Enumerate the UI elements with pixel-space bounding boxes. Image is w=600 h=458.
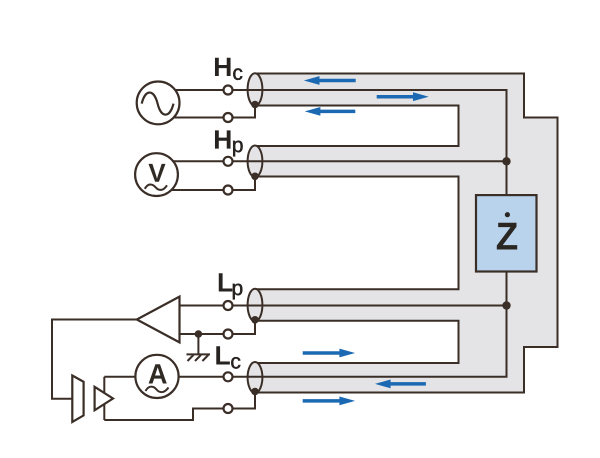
- current arrow below Lc tube (right): [303, 397, 355, 406]
- wire Hc shield connection: [157, 103, 255, 118]
- ammeter A letter: [149, 364, 167, 383]
- ammeter tilde: [146, 387, 169, 392]
- wire Hp shield connection: [158, 174, 255, 190]
- wire feedback vertical link: [103, 377, 105, 420]
- terminal Lp lower: [224, 330, 233, 339]
- terminal Hp lower: [224, 186, 233, 195]
- voltmeter tilde: [145, 184, 167, 189]
- junction DUT high node: [502, 157, 510, 165]
- junction Lc shield dot: [251, 388, 259, 396]
- terminal Hp upper: [224, 157, 233, 166]
- label Hc: [215, 58, 242, 80]
- impedance Z DUT box: [476, 195, 537, 271]
- wire Lc shield return path: [104, 390, 255, 420]
- voltmeter V letter: [149, 164, 166, 182]
- label Lc: [216, 346, 240, 368]
- wire node high to Z top: [506, 161, 508, 196]
- Lc coax connector ellipse: [248, 362, 263, 393]
- wire amplifier output feedback: [52, 320, 138, 399]
- ground symbol: [187, 354, 211, 361]
- junction ground node: [195, 330, 203, 338]
- terminal Lc lower: [224, 404, 233, 413]
- wire Hp inner conductor: [158, 160, 507, 162]
- terminal Hc upper: [224, 86, 233, 95]
- current arrow above Lc tube (right): [303, 349, 355, 358]
- wire ground stem: [197, 334, 199, 354]
- Lp coax connector ellipse: [248, 289, 263, 322]
- junction Hc shield dot: [251, 101, 259, 109]
- coax outer shield gray region (all four cable shields joined at right): [255, 74, 558, 393]
- AC source OSC circle: [137, 82, 180, 125]
- current arrow Lc shield (left): [375, 380, 426, 389]
- modulator trapezoid: [72, 376, 83, 423]
- junction Hp shield dot: [251, 173, 259, 181]
- voltmeter V circle: [135, 153, 178, 196]
- op-amp U1 (Lp null amplifier): [137, 297, 180, 343]
- junction Lp shield dot: [251, 316, 259, 324]
- terminal Hc lower: [224, 113, 233, 122]
- buffer amp small triangle: [95, 387, 113, 411]
- wire Lc inner conductor to DUT low node: [104, 306, 506, 377]
- Hc coax connector ellipse: [248, 73, 263, 106]
- junction DUT low node: [502, 301, 510, 309]
- wire Z bottom to node low: [506, 271, 508, 306]
- label Lp: [219, 273, 243, 299]
- wire Hc inner conductor to DUT high node: [157, 90, 507, 161]
- current arrow below Hc tube (left): [305, 107, 356, 116]
- wire Lp inner conductor: [178, 305, 507, 307]
- label Hp: [215, 130, 243, 156]
- current arrow Hc shield top (left): [304, 76, 356, 85]
- Z letter with dot (vector impedance): [497, 223, 517, 250]
- AC source sine wave: [142, 93, 174, 115]
- terminal Lp upper: [224, 301, 233, 310]
- terminal Lc upper: [224, 372, 233, 381]
- Hp coax connector ellipse: [248, 146, 263, 178]
- current arrow Hc inner (right): [377, 92, 429, 101]
- ammeter A circle: [135, 355, 178, 398]
- wire Lp shield connection: [178, 318, 255, 334]
